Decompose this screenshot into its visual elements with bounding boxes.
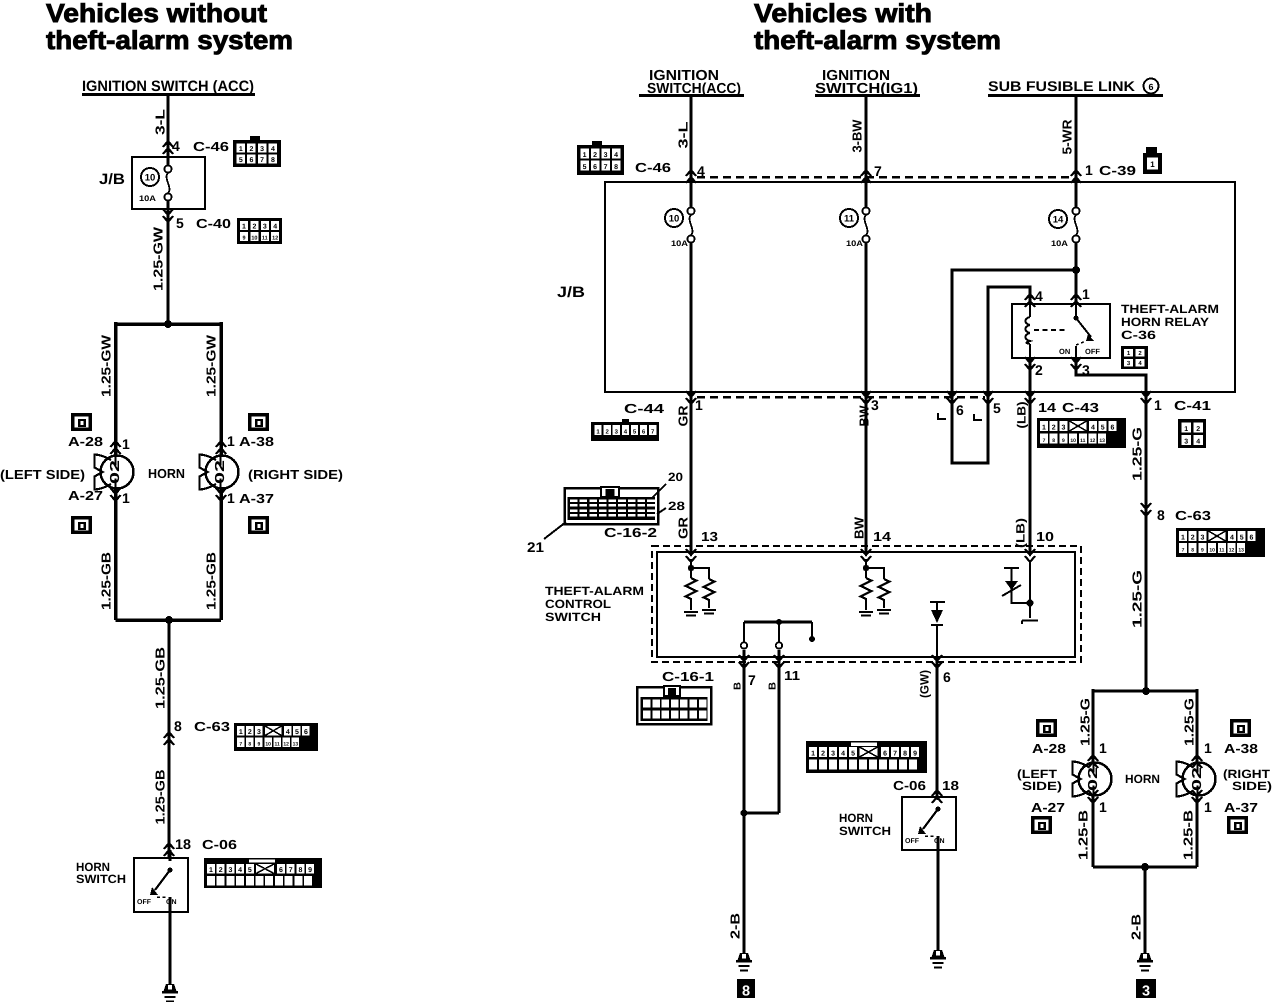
wire label 1.25-GW (feed) [151,226,166,291]
title: Vehicles with theft-alarm system [754,0,1001,55]
svg-text:2: 2 [1196,426,1200,433]
wire 3-BW (IG1) [850,96,867,182]
svg-text:3: 3 [1184,439,1188,446]
svg-text:SWITCH: SWITCH [545,610,601,624]
svg-text:9: 9 [308,867,312,874]
svg-text:18: 18 [175,836,191,852]
svg-text:14: 14 [873,529,892,544]
svg-text:10: 10 [1036,529,1054,544]
svg-text:2: 2 [1035,362,1043,378]
svg-text:4: 4 [1196,439,1200,446]
theft-alarm horn relay box C-36 [1012,304,1110,358]
connector C-39 icon [1143,147,1162,174]
svg-text:1: 1 [1082,286,1090,302]
svg-text:11: 11 [262,236,268,242]
svg-text:20: 20 [668,470,683,484]
wire colour (GW) label [918,670,932,698]
control switch pin 11 exit [774,650,800,813]
svg-text:11: 11 [784,668,800,683]
svg-text:9: 9 [242,236,245,242]
svg-text:C-16-1: C-16-1 [662,669,714,684]
pin 6 exit arrow [947,391,964,418]
svg-text:1.25-GB: 1.25-GB [153,647,168,709]
connector C-06 icon (right) [806,741,927,773]
relay pin 1 arrow [1071,286,1090,307]
svg-text:3: 3 [604,152,608,159]
wire colour (LB) (C-43) [1015,402,1029,429]
fuse 14 10A (5-WR) [1049,182,1080,304]
svg-text:1.25-B: 1.25-B [1181,810,1196,860]
wire 3-L (ACC) [676,96,692,182]
connector C-46 label + pin 4 arrow [635,160,705,183]
label C-16-1 [662,669,714,684]
connector C-46 icon (right) [577,141,624,175]
svg-text:C-63: C-63 [1175,508,1211,523]
control switch internal resistors (pin 14) [859,559,891,616]
control switch pin 13 entry [686,529,718,562]
node: horn ground-side junction [116,616,222,624]
svg-text:11: 11 [1219,548,1225,554]
svg-text:12: 12 [1229,548,1235,554]
svg-text:9: 9 [1062,438,1065,444]
svg-text:6: 6 [1110,425,1114,432]
ground (right diagram horns) [1137,953,1153,971]
horn left side (right diagram) [1073,762,1112,797]
svg-text:SIDE): SIDE) [1022,779,1062,793]
theft-alarm control switch box [657,552,1075,657]
svg-text:14: 14 [1053,215,1064,226]
svg-text:2: 2 [593,152,597,159]
svg-text:C-46: C-46 [193,139,229,154]
svg-text:12: 12 [283,742,289,748]
svg-text:5: 5 [295,729,299,736]
node: 5-WR branch to relay contact [1072,266,1080,274]
svg-text:A-37: A-37 [239,491,274,506]
svg-text:theft-alarm system: theft-alarm system [754,25,1001,55]
control switch internal resistors (pin 13) [684,559,716,616]
svg-text:1: 1 [695,397,703,413]
control switch pin 10 entry [1025,529,1054,562]
svg-text:8: 8 [248,742,251,748]
svg-text:3-L: 3-L [153,109,168,135]
terminal hook marks pins 6/5 [938,413,982,420]
pin 20 leader [651,470,683,499]
node IGNITION SWITCH (ACC) feed [82,78,255,96]
svg-text:6: 6 [956,402,964,418]
svg-text:3: 3 [263,224,267,231]
svg-text:1: 1 [583,152,587,159]
svg-text:10A: 10A [671,239,688,248]
svg-text:GR: GR [676,516,691,539]
svg-text:IGNITION SWITCH (ACC): IGNITION SWITCH (ACC) [82,78,254,95]
control switch internal common bus (pins 7/11) [741,619,815,649]
svg-text:10: 10 [145,173,156,184]
svg-text:A-37: A-37 [1224,800,1258,815]
svg-text:A-27: A-27 [68,488,103,503]
svg-text:1: 1 [239,729,243,736]
connector C-16-2 icon [565,487,659,524]
wire horn switch to ground [937,850,940,950]
node IGNITION SWITCH (ACC) feed (right) [639,68,744,97]
svg-text:2: 2 [248,729,252,736]
svg-text:HORN: HORN [839,811,873,825]
svg-text:6: 6 [279,867,283,874]
fuse 10 10A (ACC, right) [665,182,695,392]
connector A-28 icon+label, pin 1 of left horn [68,413,130,454]
svg-text:5: 5 [851,751,855,758]
svg-text:10A: 10A [1051,239,1068,248]
control switch pin 14 entry [861,529,892,562]
svg-text:4: 4 [1091,425,1095,432]
node: horn feed branch junction [116,320,222,328]
svg-text:C-41: C-41 [1174,398,1211,413]
svg-text:6: 6 [593,164,597,171]
wire 1.25-GW to left horn [99,322,116,455]
svg-text:4: 4 [273,224,277,231]
svg-text:7: 7 [289,867,293,874]
svg-text:8: 8 [614,164,618,171]
dashed connector mating line C-44/C-43/C-41 [697,396,985,399]
C-41 pin 1 exit arrow [1141,391,1211,413]
svg-text:A-38: A-38 [239,434,274,449]
wire 2-B to ground (control switch) [728,813,745,953]
labels HORN / (LEFT SIDE) / (RIGHT SIDE) (right diagram) [1017,767,1272,793]
svg-text:13: 13 [1099,438,1105,444]
svg-text:1: 1 [209,867,213,874]
svg-text:8: 8 [1157,507,1165,523]
svg-text:1.25-GB: 1.25-GB [153,770,168,825]
svg-text:10: 10 [1209,548,1215,554]
connector A-38 icon+label (right diagram) [1192,719,1258,768]
svg-text:3: 3 [1200,535,1204,542]
svg-text:SWITCH: SWITCH [839,824,891,838]
wire 5-WR (sub fusible link) [1060,96,1077,182]
svg-text:OFF: OFF [137,899,152,906]
svg-text:5-WR: 5-WR [1060,119,1075,155]
connector C-46 pin 4 junction [163,138,229,154]
svg-text:13: 13 [293,742,299,748]
svg-text:14: 14 [1038,400,1057,415]
svg-text:8: 8 [742,984,750,1000]
svg-text:A-38: A-38 [1224,741,1258,756]
svg-text:1: 1 [1150,160,1155,169]
relay pin 3 arrow [1071,357,1090,378]
svg-text:9: 9 [258,742,261,748]
svg-text:1: 1 [239,146,243,153]
svg-text:3-BW: 3-BW [850,119,865,153]
connector C-44 icon [591,419,659,441]
pin 5 entry arrow [983,391,1001,416]
svg-text:10: 10 [251,236,257,242]
svg-text:1: 1 [122,436,130,452]
svg-text:8: 8 [271,157,275,164]
relay coil [1026,304,1069,358]
svg-text:(LB): (LB) [1014,518,1028,548]
svg-text:1: 1 [1154,397,1162,413]
svg-text:1: 1 [1085,162,1093,178]
wire 2-B to ground (right diagram) [1129,867,1146,953]
label C-44 [624,401,665,416]
svg-text:5: 5 [1101,425,1105,432]
svg-text:18: 18 [942,778,959,793]
ground (horn switch right) [930,950,946,968]
relay pin 4 arrow [1025,288,1043,307]
svg-text:4: 4 [172,138,180,154]
svg-text:SWITCH: SWITCH [76,872,126,886]
svg-text:ON: ON [1059,347,1070,356]
svg-text:1.25-G: 1.25-G [1130,570,1145,628]
wire 1.25-GB from left horn [99,488,116,620]
C-44 pin 1 exit arrow [686,391,703,413]
svg-text:3: 3 [1142,984,1150,1000]
svg-text:6: 6 [883,751,887,758]
C-43 pin 14 exit arrow [1025,391,1099,415]
wire 1.25-G from C-41 to horns [1130,392,1147,691]
svg-text:1.25-G: 1.25-G [1130,427,1145,481]
title: Vehicles without theft-alarm system [46,0,293,55]
wire: branch to pin 6 loop [952,270,1076,463]
svg-text:A-28: A-28 [68,434,103,449]
control switch internal diode (pin 6) [930,602,945,657]
wire to ground (left) [169,912,172,984]
svg-text:1.25-GB: 1.25-GB [204,552,219,610]
connector C-39 pin 1 arrow + label [1071,162,1136,183]
node: horn branch junction (right) [1093,687,1197,695]
connector A-38 icon+label, pin 1 of right horn [216,413,274,454]
wire 1.25-B from left horn (right diagram) [1076,795,1094,867]
wire colour BW (C-44) [857,405,872,427]
svg-text:8: 8 [298,867,302,874]
label C-16-2 [604,525,657,540]
connector C-06 pin 18 junction (right) [893,778,959,803]
svg-text:12: 12 [272,236,278,242]
svg-text:1: 1 [227,433,235,449]
svg-text:1.25-G: 1.25-G [1182,698,1197,746]
svg-text:1.25-GW: 1.25-GW [204,334,219,397]
svg-text:6: 6 [304,729,308,736]
svg-text:BW: BW [852,516,867,539]
connector A-28 icon+label (right diagram) [1032,719,1107,768]
svg-text:(RIGHT SIDE): (RIGHT SIDE) [248,467,343,482]
svg-text:B: B [733,682,744,690]
svg-text:1.25-G: 1.25-G [1078,698,1093,746]
pin 21 leader [527,522,566,555]
svg-text:1: 1 [1099,740,1107,756]
svg-text:C-36: C-36 [1121,328,1156,342]
ground point 8 marker [737,979,755,1000]
control switch pin 6 exit [932,655,951,797]
svg-text:1.25-GW: 1.25-GW [99,334,114,397]
svg-text:OFF: OFF [905,838,920,845]
wire 1.25-G to left horn (right diagram) [1078,689,1094,762]
svg-text:8: 8 [174,718,182,734]
svg-text:28: 28 [668,499,685,513]
svg-text:CONTROL: CONTROL [545,597,611,611]
C-44 pin 3 exit arrow [861,391,879,413]
connector C-06 icon (left) [204,858,322,888]
svg-text:1: 1 [227,490,235,506]
svg-text:7: 7 [239,742,242,748]
svg-text:4: 4 [271,146,275,153]
svg-text:11: 11 [1080,438,1086,444]
svg-text:10: 10 [1070,438,1076,444]
svg-text:11: 11 [274,742,280,748]
svg-text:C-06: C-06 [202,837,237,852]
connector C-40 icon (left) [237,218,282,244]
svg-text:7: 7 [1043,438,1046,444]
svg-text:1: 1 [242,224,246,231]
svg-text:8: 8 [1052,438,1055,444]
svg-text:5: 5 [239,157,243,164]
svg-text:2: 2 [821,751,825,758]
svg-text:1: 1 [811,751,815,758]
svg-text:C-46: C-46 [635,160,671,175]
svg-text:13: 13 [1238,548,1244,554]
horn (right side) [200,455,239,490]
connector C-63 pin 8 junction (right) [1141,503,1211,523]
svg-text:9: 9 [1201,548,1204,554]
svg-text:6: 6 [943,669,951,685]
connector C-36 icon [1121,346,1148,369]
svg-text:1.25-GB: 1.25-GB [99,552,114,610]
svg-text:10: 10 [265,742,271,748]
connector A-37 icon+label (right diagram) [1192,790,1258,834]
control switch pin 7 exit [739,650,756,813]
svg-text:2: 2 [249,146,253,153]
svg-text:1: 1 [1099,799,1107,815]
svg-text:HORN: HORN [148,466,185,481]
wire BW to control switch pin 14 [852,392,867,552]
wire relay pin2 to C-43 pin 14 [1029,358,1032,392]
svg-text:HORN RELAY: HORN RELAY [1121,315,1209,329]
svg-text:9: 9 [913,751,917,758]
svg-text:11: 11 [844,214,855,225]
wire 3-L from ignition switch to J/B [153,96,169,157]
label THEFT-ALARM CONTROL SWITCH [545,584,644,624]
pin 28 leader [657,499,685,514]
svg-text:5: 5 [993,400,1001,416]
svg-text:1: 1 [1042,425,1046,432]
horn right side (right diagram) [1177,762,1216,797]
junction block J/B (right) [557,182,1235,392]
node SUB FUSIBLE LINK 6 feed [988,78,1163,97]
connector C-63 icon (left) [234,723,318,751]
horn (left side) [95,455,134,490]
svg-text:4: 4 [286,729,290,736]
svg-text:THEFT-ALARM: THEFT-ALARM [545,584,644,598]
svg-text:3: 3 [831,751,835,758]
svg-text:C-63: C-63 [194,719,230,734]
svg-text:5: 5 [248,867,252,874]
svg-text:6: 6 [249,157,253,164]
svg-text:Vehicles with: Vehicles with [754,0,932,28]
svg-text:3: 3 [228,867,232,874]
svg-text:BW: BW [857,405,872,427]
label HORN / (LEFT SIDE) / (RIGHT SIDE) [0,466,343,482]
svg-text:12: 12 [1090,438,1096,444]
svg-text:OFF: OFF [1085,347,1100,356]
svg-text:7: 7 [604,164,608,171]
svg-text:HORN: HORN [1125,772,1160,786]
svg-text:3: 3 [260,146,264,153]
wire 1.25-B from right horn (right diagram) [1181,795,1198,867]
svg-text:J/B: J/B [99,171,125,188]
svg-text:6: 6 [1148,82,1153,92]
relay pin 2 arrow [1025,357,1043,378]
svg-text:10: 10 [669,214,680,225]
svg-text:5: 5 [1240,535,1244,542]
node: pins 7/11 join [741,810,780,817]
relay switch contact [1059,304,1100,358]
svg-text:1: 1 [122,490,130,506]
svg-text:A-28: A-28 [1032,741,1066,756]
svg-text:4: 4 [1035,288,1043,304]
connector A-27 icon+label (right diagram) [1031,790,1107,834]
connector C-43 icon [1037,418,1126,448]
svg-text:5: 5 [176,215,184,231]
ground (control switch) [736,953,752,971]
svg-text:(LEFT SIDE): (LEFT SIDE) [0,467,85,482]
connector C-06 pin 18 junction (left) [164,836,237,856]
wire 1.25-G to right horn (right diagram) [1182,689,1198,762]
wire GR to control switch pin 13 [676,392,692,552]
svg-text:10A: 10A [139,194,156,203]
svg-text:THEFT-ALARM: THEFT-ALARM [1121,302,1219,316]
svg-text:6: 6 [1249,535,1253,542]
label THEFT-ALARM HORN RELAY C-36 [1121,302,1219,342]
svg-text:GR: GR [676,405,691,427]
svg-text:A-27: A-27 [1031,800,1065,815]
svg-text:2: 2 [1052,425,1056,432]
svg-text:4: 4 [1230,535,1234,542]
wire relay pin3 to C-41 [1076,358,1146,392]
svg-text:7: 7 [748,672,756,688]
horn switch box (right) [839,797,956,850]
svg-text:2-B: 2-B [728,913,743,939]
dashed connector mating line C-46/C-39 [697,176,1070,179]
pin 7 arrow (IG1 into J/B) [861,163,882,183]
svg-text:4: 4 [614,152,618,159]
connector A-27 icon+label, left horn pin 1 out [68,488,130,534]
svg-text:8: 8 [1191,548,1194,554]
svg-text:7: 7 [260,157,264,164]
svg-text:7: 7 [1182,548,1185,554]
svg-text:2: 2 [252,224,256,231]
svg-text:2-B: 2-B [1129,914,1144,940]
fuse 11 10A (IG1) [840,182,870,392]
svg-text:3: 3 [1061,425,1065,432]
wire 1.25-GB down to horn switch [153,770,168,825]
svg-text:3-L: 3-L [676,121,691,148]
svg-text:5: 5 [583,164,587,171]
svg-text:Vehicles without: Vehicles without [46,0,267,28]
svg-text:2: 2 [219,867,223,874]
wire colour B labels [733,682,779,690]
connector C-16-1 icon [637,686,711,724]
svg-text:C-39: C-39 [1099,163,1136,178]
connector C-41 icon [1178,419,1206,448]
svg-text:1.25-B: 1.25-B [1076,810,1091,860]
theft-alarm control switch connector boundary (dashed) [652,546,1081,662]
svg-text:(LB): (LB) [1015,402,1029,429]
svg-text:21: 21 [527,539,544,555]
ground point 3 marker [1136,979,1156,1000]
connector A-37 icon+label, right horn pin 1 out [216,488,274,534]
node IGNITION SWITCH (IG1) feed [815,68,920,97]
node: horn ground junction (right diagram) [1093,863,1197,871]
ground (left diagram) [162,984,178,1002]
svg-text:7: 7 [893,751,897,758]
